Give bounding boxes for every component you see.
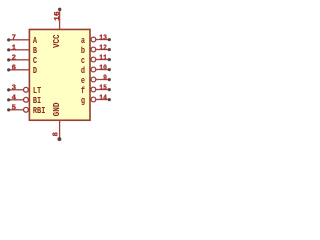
svg-text:C: C (33, 56, 38, 66)
svg-text:2: 2 (12, 55, 17, 63)
pin 3 LT wire (9, 89, 24, 91)
svg-text:VCC: VCC (52, 34, 62, 48)
svg-text:15: 15 (99, 84, 107, 92)
svg-text:a: a (81, 36, 86, 46)
pin-end dot D (7, 68, 10, 71)
inversion bubble RBI (24, 107, 29, 112)
inversion bubble f (91, 87, 96, 92)
pin-end dot g (108, 98, 111, 101)
svg-text:LT: LT (33, 86, 42, 96)
pin 2 C wire (9, 59, 30, 61)
svg-text:d: d (81, 66, 85, 76)
svg-text:f: f (81, 86, 85, 96)
pin 13 a wire (96, 39, 109, 41)
pin 14 g wire (96, 99, 109, 101)
pin 5 RBI wire (9, 109, 24, 111)
pin-end dot f (108, 88, 111, 91)
svg-text:e: e (81, 76, 85, 86)
svg-text:BI: BI (33, 96, 41, 106)
pin 4 BI wire (9, 99, 24, 101)
svg-text:g: g (81, 96, 85, 106)
svg-text:7: 7 (12, 35, 17, 43)
svg-text:B: B (33, 46, 38, 56)
pin-end dot d (108, 68, 111, 71)
pin 8 GND wire (59, 120, 61, 139)
pin 6 D wire (9, 69, 30, 71)
inversion bubble e (91, 77, 96, 82)
inversion bubble a (91, 37, 96, 42)
inversion bubble LT (24, 87, 29, 92)
inversion bubble d (91, 67, 96, 72)
pin 1 B wire (9, 49, 30, 51)
pin-end dot VCC (58, 8, 61, 11)
svg-text:b: b (81, 46, 85, 56)
pin-end dot b (108, 48, 111, 51)
svg-text:GND: GND (52, 103, 62, 117)
svg-text:14: 14 (99, 94, 107, 102)
IC body U1 (29, 29, 90, 120)
pin 7 A wire (9, 39, 30, 41)
pin 11 c wire (96, 59, 109, 61)
pin-end dot a (108, 38, 111, 41)
inversion bubble g (91, 97, 96, 102)
svg-text:9: 9 (103, 74, 107, 82)
svg-text:3: 3 (12, 85, 17, 93)
svg-text:1: 1 (12, 45, 17, 53)
svg-text:8: 8 (53, 132, 61, 137)
pin-end dot e (108, 78, 111, 81)
svg-text:A: A (33, 36, 38, 46)
pin-end dot c (108, 58, 111, 61)
pin 9 e wire (96, 79, 109, 81)
svg-text:13: 13 (99, 34, 107, 42)
pin 12 b wire (96, 49, 109, 51)
svg-text:RBI: RBI (33, 106, 45, 116)
svg-text:c: c (81, 56, 85, 66)
svg-text:16: 16 (54, 11, 62, 21)
pin 16 VCC wire (59, 9, 61, 29)
svg-text:10: 10 (99, 64, 107, 72)
inversion bubble BI (24, 97, 29, 102)
pin-end dot A (7, 38, 10, 41)
pin 15 f wire (96, 89, 109, 91)
svg-text:6: 6 (12, 65, 17, 73)
pin-end dot BI (7, 98, 10, 101)
pin 10 d wire (96, 69, 109, 71)
svg-text:11: 11 (99, 54, 107, 62)
pin-end dot B (7, 48, 10, 51)
inversion bubble b (91, 47, 96, 52)
IC schematic symbol: BCD to 7-segment decoder/driver (74x47 style) (0, 0, 120, 150)
svg-text:12: 12 (99, 44, 107, 52)
pin-end dot GND (58, 137, 62, 141)
svg-text:4: 4 (12, 95, 17, 103)
pin-end dot LT (7, 88, 10, 91)
pin-end dot C (7, 58, 10, 61)
svg-text:D: D (33, 66, 37, 76)
inversion bubble c (91, 57, 96, 62)
pin-end dot RBI (7, 108, 10, 111)
svg-text:5: 5 (12, 105, 17, 113)
